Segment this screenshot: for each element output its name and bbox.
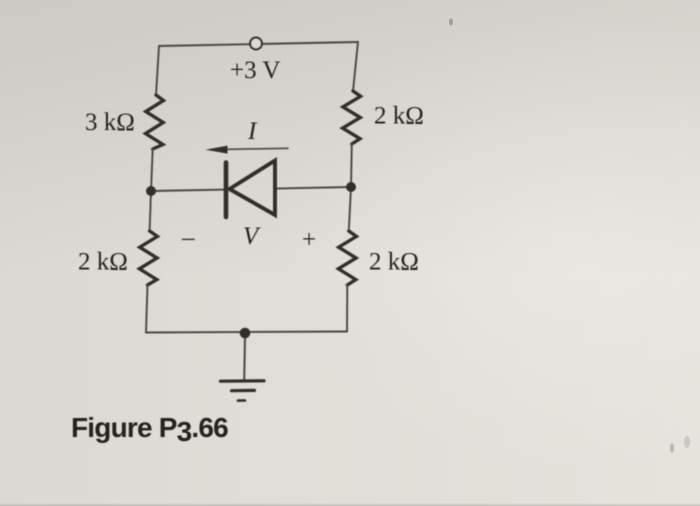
node dot ground — [240, 328, 251, 339]
wire bottom — [146, 332, 347, 333]
svg-text:–: – — [181, 225, 195, 252]
terminal circle +3V — [250, 38, 262, 50]
wire middle left (node to diode) — [151, 190, 226, 191]
node dot left — [146, 186, 156, 196]
svg-text:2 kΩ: 2 kΩ — [78, 249, 128, 276]
diode D1 triangle — [230, 161, 276, 216]
current arrow line — [210, 148, 288, 149]
wire right to bottom corner — [346, 285, 348, 332]
resistor R4 2k right bottom — [338, 231, 356, 285]
ground stem — [243, 337, 246, 380]
wire right upper — [353, 42, 358, 91]
wire left upper — [156, 46, 159, 95]
resistor R3 2k left bottom — [139, 231, 157, 285]
wire left to bottom corner — [146, 285, 148, 333]
svg-text:2 kΩ: 2 kΩ — [369, 249, 419, 276]
wire right lower seg — [349, 187, 351, 231]
diode D1 cathode bar — [224, 163, 229, 218]
svg-text:I: I — [247, 118, 258, 145]
wire left mid — [151, 149, 153, 191]
node dot right — [346, 182, 356, 192]
ground bar 1 — [221, 379, 265, 383]
svg-text:Figure P3.66: Figure P3.66 — [71, 412, 228, 447]
resistor R1 3k left top — [146, 95, 164, 149]
wire middle right (diode to node) — [275, 187, 351, 189]
current arrowhead — [206, 146, 228, 154]
svg-text:+3 V: +3 V — [230, 57, 280, 84]
wire top — [159, 42, 358, 46]
svg-text:3 kΩ: 3 kΩ — [85, 109, 135, 136]
svg-text:V: V — [243, 223, 261, 250]
ground bar 3 — [238, 399, 245, 402]
wire left lower seg — [150, 191, 151, 231]
wire right mid — [350, 144, 353, 187]
resistor R2 2k right top — [343, 91, 361, 144]
svg-text:2 kΩ: 2 kΩ — [374, 103, 424, 130]
svg-text:+: + — [302, 227, 316, 254]
ground bar 2 — [232, 389, 255, 393]
